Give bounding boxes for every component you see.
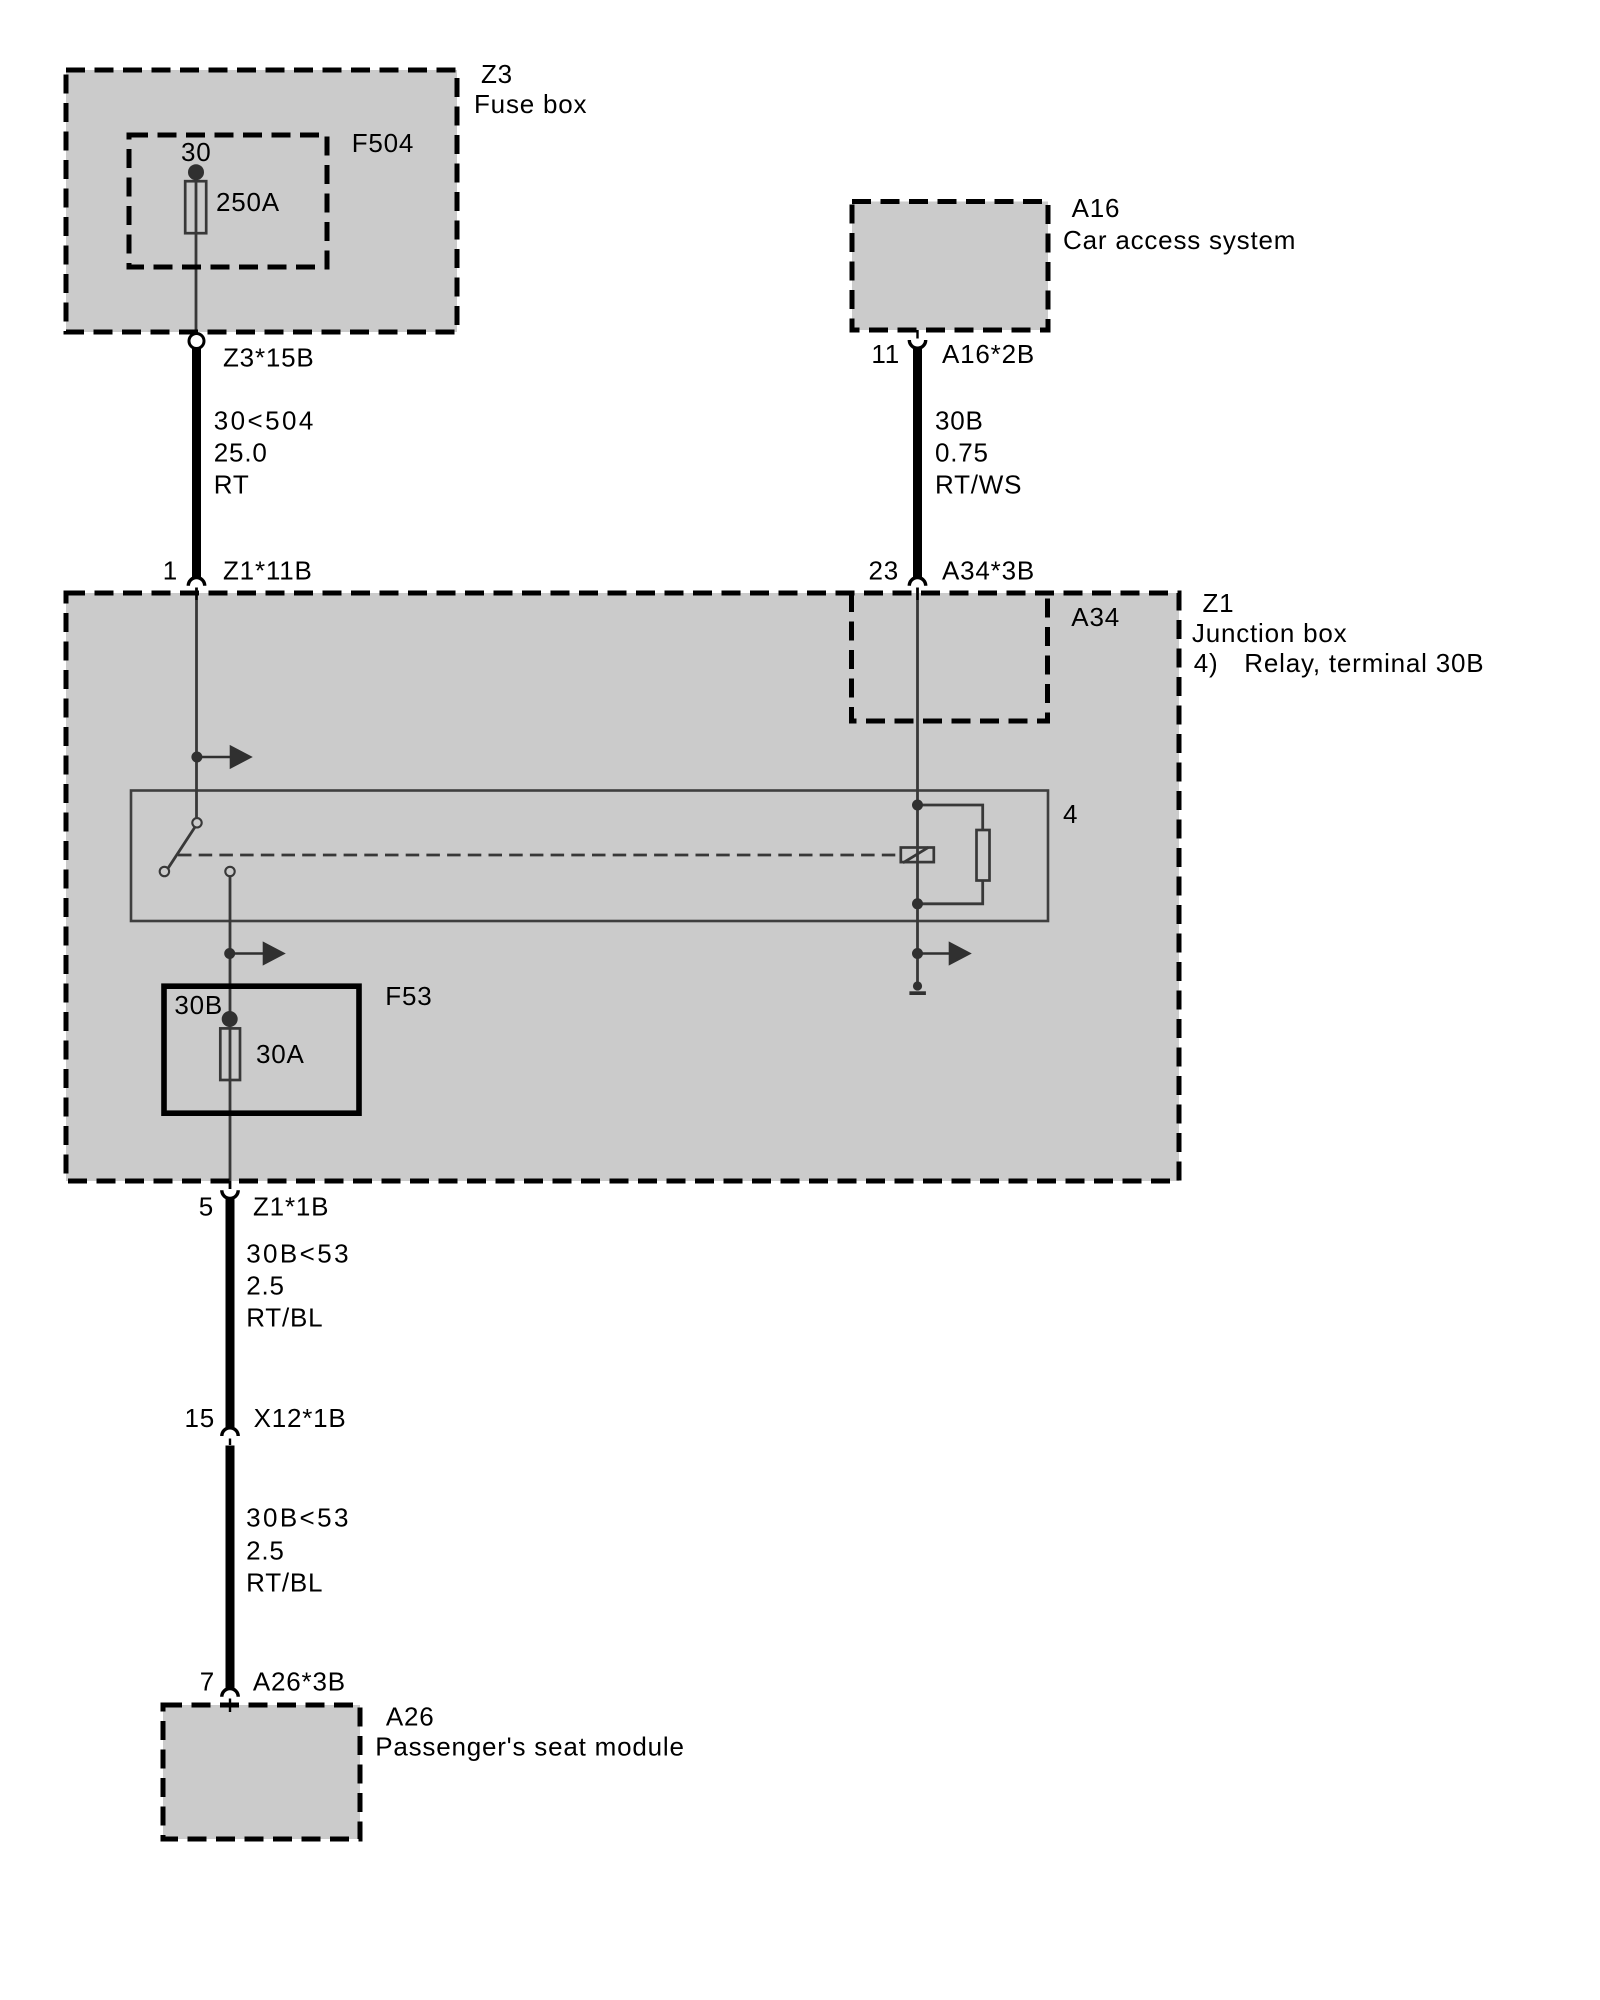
svg-text:RT: RT <box>214 470 250 500</box>
svg-text:0.75: 0.75 <box>935 438 989 468</box>
svg-text:30B<53: 30B<53 <box>246 1239 351 1269</box>
svg-text:Relay, terminal 30B: Relay, terminal 30B <box>1244 648 1484 678</box>
svg-text:15: 15 <box>184 1403 215 1433</box>
svg-text:RT/BL: RT/BL <box>246 1568 323 1598</box>
svg-text:RT/BL: RT/BL <box>246 1302 323 1332</box>
svg-text:4: 4 <box>1063 799 1078 829</box>
svg-text:Junction box: Junction box <box>1192 618 1348 648</box>
svg-text:30<504: 30<504 <box>214 406 316 436</box>
svg-text:A16*2B: A16*2B <box>942 339 1035 369</box>
svg-text:250A: 250A <box>216 187 280 217</box>
svg-text:F504: F504 <box>352 128 414 158</box>
svg-text:30B: 30B <box>174 990 223 1020</box>
svg-text:Z3*15B: Z3*15B <box>223 342 315 372</box>
svg-text:A34: A34 <box>1071 602 1120 632</box>
svg-text:Passenger's seat module: Passenger's seat module <box>375 1732 685 1762</box>
svg-text:F53: F53 <box>385 981 432 1011</box>
svg-text:A16: A16 <box>1072 193 1121 223</box>
svg-text:Car access system: Car access system <box>1063 225 1296 255</box>
svg-text:A34*3B: A34*3B <box>942 556 1035 586</box>
svg-text:30: 30 <box>181 137 212 167</box>
svg-text:Z1*1B: Z1*1B <box>253 1192 329 1222</box>
svg-text:7: 7 <box>200 1667 215 1697</box>
svg-text:30B<53: 30B<53 <box>246 1503 351 1533</box>
svg-text:5: 5 <box>199 1192 214 1222</box>
svg-text:A26: A26 <box>386 1702 435 1732</box>
svg-text:30B: 30B <box>935 406 984 436</box>
svg-text:30A: 30A <box>256 1039 305 1069</box>
svg-text:23: 23 <box>868 556 899 586</box>
svg-text:4): 4) <box>1194 648 1219 678</box>
svg-text:1: 1 <box>163 556 178 586</box>
svg-text:2.5: 2.5 <box>246 1536 285 1566</box>
svg-text:11: 11 <box>871 339 900 369</box>
svg-text:A26*3B: A26*3B <box>253 1667 346 1697</box>
svg-text:Z3: Z3 <box>481 59 513 89</box>
svg-text:25.0: 25.0 <box>214 438 268 468</box>
svg-text:Z1: Z1 <box>1203 588 1235 618</box>
svg-text:X12*1B: X12*1B <box>254 1403 347 1433</box>
svg-text:RT/WS: RT/WS <box>935 470 1022 500</box>
svg-text:Z1*11B: Z1*11B <box>223 556 313 586</box>
svg-text:Fuse box: Fuse box <box>474 89 587 119</box>
svg-text:2.5: 2.5 <box>246 1270 285 1300</box>
